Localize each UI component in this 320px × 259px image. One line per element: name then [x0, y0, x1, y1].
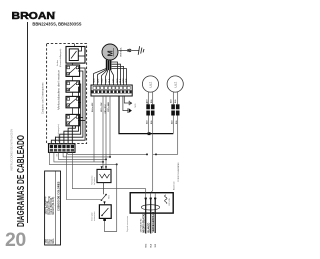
lamp L1: [142, 76, 158, 92]
wires out of box bottom: [146, 198, 156, 233]
wires below CN1: [94, 96, 110, 169]
svg-text:NEG: NEG: [108, 195, 110, 199]
lamp disconnect plug: [123, 96, 137, 113]
svg-text:GRI: GRI: [105, 79, 107, 83]
wire relay to neg run: [105, 221, 117, 232]
svg-text:BLA: BLA: [150, 99, 153, 103]
wire labels below CN1: [91, 101, 149, 113]
label interruptor: [91, 212, 97, 221]
svg-text:La luz: La luz: [57, 60, 59, 66]
svg-text:VER/AMA: VER/AMA: [120, 47, 123, 57]
svg-text:VER: VER: [126, 78, 128, 83]
svg-text:LUZ: LUZ: [173, 82, 177, 88]
svg-text:20: 20: [5, 229, 26, 251]
svg-text:INSTRUCCIONES DE INSTALACION: INSTRUCCIONES DE INSTALACION: [10, 129, 14, 171]
lamp L2: [167, 76, 183, 92]
switch S2: [66, 63, 80, 76]
label la luz: [57, 48, 62, 67]
junction dots on fan: [102, 153, 148, 165]
svg-text:AZU: AZU: [145, 99, 148, 103]
label termostato: [91, 176, 97, 185]
svg-text:VERDE (GREEN): VERDE (GREEN): [45, 196, 47, 214]
svg-text:Alambrado: Alambrado: [173, 181, 176, 190]
supply wire labels: [140, 212, 158, 248]
lamp socket X1: [146, 104, 154, 115]
svg-text:DIAGRAMAS DE CABLEADO: DIAGRAMAS DE CABLEADO: [16, 135, 27, 227]
svg-text:M: M: [106, 50, 115, 56]
svg-text:4 3: 4 3: [57, 154, 59, 157]
svg-text:Velocidades del motor: Velocidades del motor: [57, 70, 60, 110]
socket wires down: [148, 116, 177, 194]
svg-text:NEGRO (BLACK): NEGRO (BLACK): [52, 196, 55, 214]
wires into box: [146, 189, 156, 199]
svg-text:AZU: AZU: [96, 78, 99, 83]
neg vertical run: [116, 164, 118, 231]
L1 leads: [148, 92, 152, 104]
svg-text:BLANCO: BLANCO: [148, 222, 151, 232]
svg-text:automatico: automatico: [93, 212, 96, 221]
junction dot: [155, 153, 157, 155]
svg-text:NEG: NEG: [93, 78, 95, 83]
switch S3: [66, 76, 80, 92]
wire entry dots: [145, 197, 157, 199]
lamp feed thick wire: [119, 96, 173, 134]
svg-text:BLA: BLA: [150, 243, 153, 247]
svg-text:del motor: del motor: [93, 177, 96, 185]
wire bundle right of switches: [51, 68, 85, 144]
socket lower labels: [145, 120, 177, 124]
connector CN2: [49, 144, 76, 153]
svg-text:AZU: AZU: [145, 120, 148, 124]
motor fan wires to CN1: [94, 62, 127, 85]
fan wires from CN2: [49, 152, 147, 199]
svg-text:®: ®: [54, 11, 56, 15]
motor ground lead: [119, 49, 140, 52]
svg-text:Caja de conexiones: Caja de conexiones: [127, 216, 129, 232]
svg-text:LUZ: LUZ: [149, 82, 153, 88]
wire thermostat to switch: [103, 183, 105, 195]
svg-text:VERDE/AMARILLO: VERDE/AMARILLO: [152, 212, 155, 233]
lamp socket X2: [171, 104, 179, 115]
L2 leads: [173, 92, 177, 104]
switch assembly dashed box: [47, 44, 87, 144]
junction box: [130, 193, 173, 213]
svg-text:(Encendido/Apagado): (Encendido/Apagado): [59, 48, 62, 67]
svg-text:VER: VER: [45, 238, 47, 243]
svg-text:BLA: BLA: [119, 78, 122, 83]
switch S5: [66, 108, 80, 126]
svg-text:AZU: AZU: [170, 120, 173, 124]
switch S4: [66, 92, 80, 108]
svg-text:BLA o AZU: BLA o AZU: [91, 102, 94, 112]
svg-text:120 VCA: 120 VCA: [168, 198, 171, 206]
svg-text:BBN2243SS, BBN2303SS: BBN2243SS, BBN2303SS: [32, 21, 81, 26]
svg-text:NEGRO (BLACK): NEGRO (BLACK): [143, 214, 146, 233]
svg-text:BLA: BLA: [150, 120, 153, 124]
svg-text:CODIGO DE COLORES: CODIGO DE COLORES: [57, 181, 61, 211]
Broan logo: [12, 11, 56, 23]
svg-text:CON DOS LAMPARAS: CON DOS LAMPARAS: [177, 162, 180, 182]
svg-text:NEG: NEG: [117, 78, 119, 83]
svg-text:VER o AMA: VER o AMA: [107, 101, 110, 112]
svg-text:NEG: NEG: [135, 103, 137, 107]
inline switch: [101, 194, 111, 201]
relay box: [99, 201, 111, 221]
svg-text:VER: VER: [155, 243, 157, 247]
ground symbol: [138, 46, 144, 55]
splice loop: [141, 205, 159, 210]
wire labels above CN1: [93, 78, 128, 83]
thermostat: [97, 166, 111, 182]
svg-text:BLA: BLA: [174, 99, 177, 103]
L2 lead labels: [169, 99, 176, 103]
motor M: [102, 44, 118, 60]
motor lead bundle: [107, 60, 111, 70]
strain relief squiggle: [165, 195, 167, 204]
svg-text:NEG o CAF: NEG o CAF: [100, 101, 103, 112]
junction square: [148, 132, 151, 135]
svg-text:120 VCA 60 Hz: 120 VCA 60 Hz: [140, 219, 143, 233]
svg-text:GRI o ROJ: GRI o ROJ: [105, 105, 107, 114]
vertical rule: [27, 22, 29, 223]
color code table: [45, 171, 61, 245]
switch S1 light: [66, 44, 85, 64]
svg-text:Conjunto con 5 interruptores: Conjunto con 5 interruptores: [42, 82, 45, 114]
svg-text:BLA: BLA: [175, 120, 178, 124]
svg-text:ROJ: ROJ: [101, 79, 103, 83]
h wire lamps: [153, 153, 178, 155]
terminal strip CN1: [91, 85, 132, 96]
svg-text:BLA: BLA: [108, 78, 111, 83]
svg-text:Interruptor: Interruptor: [91, 212, 94, 221]
svg-text:BROAN: BROAN: [12, 11, 55, 22]
svg-text:Termostato: Termostato: [91, 176, 94, 185]
svg-text:AZU: AZU: [122, 78, 125, 83]
svg-text:NEG: NEG: [146, 243, 148, 247]
L1 lead labels: [145, 99, 152, 103]
svg-text:NEG: NEG: [53, 238, 55, 243]
svg-text:AZU: AZU: [169, 99, 172, 103]
wires S1 to bundle: [78, 47, 84, 57]
